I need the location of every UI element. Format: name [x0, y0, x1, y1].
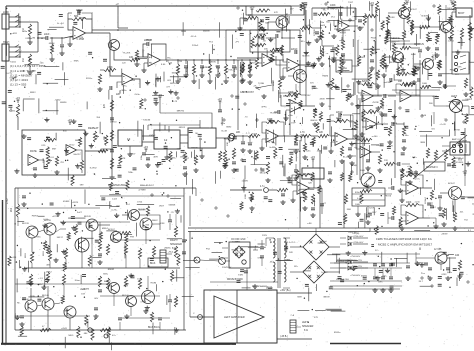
svg-text:uR19: uR19	[250, 63, 256, 65]
svg-text:+837K: +837K	[72, 202, 79, 204]
svg-text:F54: F54	[206, 248, 211, 250]
svg-text:KMVK: KMVK	[149, 135, 156, 137]
svg-text:10K: 10K	[194, 68, 196, 72]
svg-text:10K: 10K	[405, 32, 407, 36]
svg-text:R8KV: R8KV	[30, 92, 36, 94]
svg-text:51R: 51R	[215, 66, 219, 68]
svg-text:270KB: 270KB	[314, 29, 316, 36]
svg-text:+45V (B+): +45V (B+)	[280, 290, 291, 292]
svg-text:820K: 820K	[362, 81, 368, 83]
svg-text:69291: 69291	[361, 276, 368, 278]
svg-text:0KK: 0KK	[458, 67, 463, 69]
svg-text:RF+: RF+	[301, 41, 306, 43]
svg-text:4+73+: 4+73+	[111, 209, 118, 211]
svg-text:+4750+60V: +4750+60V	[352, 242, 364, 244]
svg-text:+15: +15	[450, 0, 455, 2]
svg-text:38n: 38n	[405, 135, 409, 137]
svg-text:1KK7: 1KK7	[159, 205, 165, 207]
svg-text:10K: 10K	[178, 68, 180, 72]
svg-text:477: 477	[166, 87, 170, 89]
svg-text:+45V (B): +45V (B)	[348, 232, 357, 234]
svg-text:497: 497	[290, 9, 294, 11]
svg-text:52.7u: 52.7u	[414, 178, 420, 180]
svg-text:0R22: 0R22	[43, 250, 45, 256]
svg-text:Rn4R: Rn4R	[358, 27, 364, 29]
svg-text:964: 964	[146, 224, 150, 226]
svg-text:MKF4: MKF4	[102, 228, 109, 230]
svg-text:R9692: R9692	[108, 269, 115, 271]
svg-text:+V: +V	[116, 2, 120, 6]
svg-text:6V12: 6V12	[69, 145, 75, 147]
svg-text:(1) 13 = 555: (1) 13 = 555	[10, 83, 27, 87]
svg-text:M8.5: M8.5	[69, 335, 75, 337]
svg-text:BIAS: BIAS	[150, 262, 156, 265]
svg-text:814: 814	[126, 204, 130, 206]
svg-text:22K: 22K	[384, 160, 388, 162]
svg-text:5M468: 5M468	[169, 204, 176, 206]
svg-text:R2.: R2.	[166, 61, 170, 63]
svg-text:81+69: 81+69	[343, 157, 350, 159]
svg-text:GND SPEAKER: GND SPEAKER	[252, 285, 268, 288]
svg-text:RRM: RRM	[235, 242, 240, 244]
svg-text:.76: .76	[171, 212, 175, 214]
svg-text:2K2: 2K2	[11, 207, 13, 212]
svg-text:+3RFn: +3RFn	[120, 90, 127, 92]
svg-text:K38: K38	[160, 223, 165, 225]
svg-text:nVn: nVn	[431, 128, 436, 130]
svg-text:RF7: RF7	[372, 212, 377, 214]
svg-text:220K: 220K	[288, 91, 294, 94]
svg-text:569u: 569u	[103, 273, 109, 275]
svg-text:.nun6: .nun6	[414, 201, 420, 203]
svg-text:+.1.3: +.1.3	[38, 278, 44, 280]
svg-text:R2+: R2+	[167, 57, 172, 59]
svg-text:1V.: 1V.	[272, 143, 275, 145]
svg-text:M25V4: M25V4	[170, 83, 178, 85]
svg-text:1KF: 1KF	[289, 252, 294, 254]
svg-text:Mu22V: Mu22V	[74, 154, 81, 156]
svg-text:03Rn0: 03Rn0	[110, 122, 117, 124]
svg-text:94K6: 94K6	[447, 8, 453, 10]
svg-text:670: 670	[310, 82, 314, 84]
svg-text:+15: +15	[370, 1, 375, 5]
svg-text:21.5+21.5: 21.5+21.5	[286, 242, 296, 244]
svg-text:F99: F99	[130, 236, 135, 238]
svg-text:1FVV: 1FVV	[130, 153, 136, 155]
svg-text:0253: 0253	[442, 274, 448, 276]
svg-text:100K: 100K	[245, 193, 247, 199]
svg-text:7446R: 7446R	[80, 18, 87, 20]
svg-text:1u8: 1u8	[122, 63, 126, 65]
svg-text:0..Mu: 0..Mu	[43, 219, 49, 221]
svg-text:22nF: 22nF	[44, 33, 50, 36]
svg-text:M6.32: M6.32	[260, 172, 267, 174]
svg-text:3146: 3146	[421, 115, 427, 117]
svg-text:7u5n: 7u5n	[306, 151, 312, 153]
svg-text:u27: u27	[322, 203, 326, 205]
svg-text:1M: 1M	[22, 59, 25, 62]
svg-text:4KR: 4KR	[153, 156, 158, 158]
svg-text:0FK: 0FK	[32, 71, 37, 73]
svg-text:1+134: 1+134	[448, 41, 455, 43]
svg-text:RIGHT: RIGHT	[170, 239, 178, 242]
svg-text:RATE: RATE	[30, 149, 37, 153]
svg-text:10K: 10K	[210, 68, 212, 72]
svg-text:uMR: uMR	[124, 284, 129, 286]
svg-text:n468V: n468V	[242, 181, 249, 183]
svg-text:43u: 43u	[23, 31, 27, 33]
svg-text:SPEAKER: SPEAKER	[302, 325, 314, 328]
svg-text:0V4n.: 0V4n.	[135, 94, 141, 96]
svg-text:+750/-60V: +750/-60V	[350, 256, 361, 258]
svg-text:n3VR: n3VR	[61, 328, 67, 330]
svg-text:67M: 67M	[258, 258, 262, 260]
svg-text:u..n.: u..n.	[246, 133, 251, 135]
svg-text:5K3.: 5K3.	[37, 237, 42, 239]
svg-text:½: ½	[150, 61, 152, 65]
svg-text:Rnn6: Rnn6	[80, 289, 86, 291]
svg-text:FR6: FR6	[347, 209, 352, 211]
svg-text:2200uF: 2200uF	[425, 196, 427, 204]
svg-text:54F17: 54F17	[57, 237, 64, 239]
svg-text:+15: +15	[250, 5, 255, 9]
svg-text:LOW: LOW	[3, 11, 9, 14]
svg-text:6M7: 6M7	[52, 149, 57, 151]
svg-text:38K39: 38K39	[323, 296, 330, 298]
svg-text:+FV: +FV	[235, 41, 240, 43]
svg-text:+M042: +M042	[151, 220, 159, 222]
svg-text:+Ru4: +Ru4	[168, 251, 174, 253]
svg-text:1986 TCHASES DRT2048 COM 120V: 1986 TCHASES DRT2048 COM 120V KA	[376, 237, 432, 241]
svg-text:n76n: n76n	[288, 115, 294, 117]
svg-text:K25: K25	[42, 145, 47, 147]
svg-text:+15: +15	[158, 93, 163, 97]
svg-text:0MnV4: 0MnV4	[310, 120, 318, 122]
svg-text:159: 159	[81, 294, 85, 296]
svg-text:1.0.8: 1.0.8	[49, 157, 55, 159]
svg-text:+750/-60V: +750/-60V	[350, 275, 361, 277]
svg-text:5RnM: 5RnM	[146, 40, 152, 42]
svg-text:E 4Ω: E 4Ω	[6, 198, 9, 204]
svg-text:6V57u: 6V57u	[419, 27, 426, 29]
svg-text:22K: 22K	[236, 131, 241, 134]
svg-text:R+2KK: R+2KK	[123, 53, 131, 55]
svg-text:MCB2 C AMPLIFICADOR EM MIT5181: MCB2 C AMPLIFICADOR EM MIT51817	[378, 243, 433, 247]
svg-text:.70: .70	[244, 116, 248, 118]
svg-text:K7M: K7M	[177, 61, 182, 63]
svg-text:92592: 92592	[9, 110, 16, 112]
svg-text:81R5n: 81R5n	[334, 332, 341, 334]
svg-text:R6M95: R6M95	[224, 139, 232, 141]
svg-text:47K: 47K	[274, 12, 278, 14]
svg-text:8.60: 8.60	[161, 64, 166, 66]
svg-text:220/110V: 220/110V	[222, 267, 232, 269]
svg-text:8n6nM: 8n6nM	[421, 15, 428, 17]
svg-text:016RF: 016RF	[63, 201, 70, 203]
svg-text:V04F4: V04F4	[465, 99, 472, 101]
svg-text:57+: 57+	[375, 250, 379, 252]
svg-text:R9499: R9499	[191, 147, 198, 149]
svg-text:1u03: 1u03	[112, 198, 118, 200]
svg-text:781: 781	[60, 162, 64, 164]
svg-text:74411: 74411	[10, 62, 17, 64]
svg-text:LEFT AMPLIFIER: LEFT AMPLIFIER	[224, 315, 245, 319]
svg-text:78RR: 78RR	[181, 31, 187, 33]
svg-text:M9u: M9u	[221, 123, 226, 125]
svg-text:RRF+0: RRF+0	[330, 8, 338, 10]
svg-text:0n80: 0n80	[411, 54, 417, 56]
svg-text:KFV: KFV	[402, 59, 407, 61]
svg-text:220V: 220V	[262, 235, 268, 237]
svg-text:nn2F: nn2F	[137, 278, 143, 280]
svg-text:n19V: n19V	[305, 95, 311, 97]
svg-text:.6714: .6714	[137, 202, 143, 204]
svg-text:nuK3n: nuK3n	[384, 82, 391, 84]
svg-text:K3u1u: K3u1u	[26, 38, 33, 40]
svg-text:F9V26: F9V26	[385, 196, 392, 198]
svg-text:F9387: F9387	[340, 32, 347, 34]
svg-text:350: 350	[96, 117, 100, 119]
svg-text:12 V85: 12 V85	[434, 249, 442, 251]
svg-text:35V0u: 35V0u	[86, 78, 93, 80]
svg-text:7V67: 7V67	[348, 2, 354, 4]
svg-text:3RM: 3RM	[420, 142, 425, 144]
svg-text:599: 599	[80, 185, 84, 187]
svg-text:100K: 100K	[355, 204, 361, 206]
svg-text:V67: V67	[185, 158, 190, 160]
svg-text:51.0V: 51.0V	[349, 122, 355, 124]
svg-text:8 Ω: 8 Ω	[172, 247, 176, 250]
svg-text:52K: 52K	[308, 182, 312, 184]
svg-text:0MK2: 0MK2	[46, 272, 52, 274]
svg-text:+15: +15	[311, 155, 316, 159]
svg-text:K0un.: K0un.	[75, 280, 81, 282]
svg-text:7+8: 7+8	[290, 315, 294, 317]
svg-text:C: C	[193, 313, 195, 315]
svg-text:06V: 06V	[94, 298, 98, 300]
svg-text:220nF: 220nF	[336, 112, 343, 114]
svg-text:799: 799	[292, 103, 296, 105]
svg-text:6RR: 6RR	[124, 286, 129, 288]
svg-text:70M: 70M	[357, 82, 361, 84]
svg-text:0V5: 0V5	[167, 80, 172, 82]
svg-text:560K: 560K	[53, 44, 55, 50]
svg-text:BF245: BF245	[287, 13, 289, 20]
svg-text:7K15M: 7K15M	[270, 113, 277, 115]
svg-text:Fn2: Fn2	[209, 41, 214, 43]
svg-text:22K: 22K	[116, 94, 121, 96]
svg-text:FKRF8: FKRF8	[202, 67, 210, 69]
svg-text:370+: 370+	[122, 85, 128, 87]
svg-text:+15: +15	[405, 0, 410, 2]
svg-text:BC547: BC547	[390, 62, 397, 64]
svg-text:+15: +15	[218, 97, 223, 101]
svg-text:9V0M: 9V0M	[150, 282, 156, 284]
svg-text:22K: 22K	[319, 132, 324, 134]
svg-text:MKR: MKR	[242, 91, 247, 93]
svg-text:6FuM: 6FuM	[49, 43, 55, 45]
svg-text:8+u: 8+u	[421, 273, 425, 275]
svg-text:681FF: 681FF	[179, 127, 186, 129]
svg-text:0u0: 0u0	[116, 206, 120, 208]
svg-text:220K: 220K	[107, 66, 113, 69]
svg-text:.u3.: .u3.	[454, 215, 458, 217]
svg-text:F.2: F.2	[433, 207, 437, 209]
svg-text:8890: 8890	[226, 127, 232, 129]
svg-text:100K: 100K	[406, 202, 412, 204]
svg-text:9n63: 9n63	[320, 25, 326, 27]
svg-text:LM2954-25H: LM2954-25H	[336, 261, 349, 263]
svg-text:+4750+60V: +4750+60V	[352, 236, 364, 238]
svg-text:47: 47	[42, 326, 45, 328]
svg-text:24n+: 24n+	[382, 276, 388, 278]
svg-text:V2V: V2V	[236, 252, 241, 254]
svg-text:M++: M++	[142, 301, 147, 303]
svg-text:0R22: 0R22	[25, 252, 27, 258]
svg-text:BC547: BC547	[448, 183, 455, 185]
svg-text:F38V0: F38V0	[32, 215, 39, 217]
svg-text:006: 006	[264, 48, 268, 50]
svg-text:MASTER 3: MASTER 3	[426, 166, 438, 169]
svg-text:1R2F: 1R2F	[182, 156, 188, 158]
svg-text:M56: M56	[131, 80, 136, 82]
svg-text:2K1: 2K1	[331, 17, 336, 19]
svg-text:286: 286	[429, 103, 433, 105]
svg-text:26.7: 26.7	[419, 281, 424, 283]
svg-text:4K3K: 4K3K	[320, 98, 326, 100]
svg-text:.KVF: .KVF	[291, 122, 297, 124]
svg-text:BD139: BD139	[22, 223, 29, 225]
svg-text:68K: 68K	[74, 15, 79, 18]
svg-text:V1K+R: V1K+R	[228, 69, 235, 71]
svg-text:M43F9: M43F9	[172, 73, 180, 75]
svg-text:10K: 10K	[129, 56, 134, 59]
svg-text:n123: n123	[11, 257, 17, 259]
svg-text:nFF3.: nFF3.	[261, 107, 267, 109]
svg-text:5660M: 5660M	[10, 78, 17, 80]
svg-text:12: 12	[164, 138, 168, 142]
svg-text:4V23F: 4V23F	[372, 102, 379, 104]
svg-text:7M4M: 7M4M	[322, 76, 328, 78]
svg-text:.+n: .+n	[325, 53, 329, 55]
svg-text:830: 830	[63, 130, 67, 132]
svg-text:F94+9: F94+9	[450, 69, 457, 71]
svg-text:4.F+u: 4.F+u	[191, 36, 197, 38]
svg-text:BC547: BC547	[433, 54, 435, 61]
svg-text:8++K4: 8++K4	[57, 23, 64, 25]
svg-text:nV88: nV88	[389, 17, 395, 19]
svg-text:M54n: M54n	[253, 158, 259, 160]
svg-text:1Rn: 1Rn	[378, 282, 383, 284]
svg-text:220nF: 220nF	[291, 49, 298, 51]
svg-text:uM08u: uM08u	[164, 248, 171, 250]
svg-text:+15: +15	[16, 96, 21, 100]
svg-text:9u27: 9u27	[77, 212, 83, 214]
svg-text:BIAS ADJUST: BIAS ADJUST	[140, 184, 155, 187]
svg-text:.68: .68	[263, 41, 267, 43]
svg-text:0R696: 0R696	[60, 102, 67, 104]
svg-text:+15: +15	[144, 145, 149, 149]
svg-text:76M+: 76M+	[128, 172, 134, 174]
svg-text:421: 421	[460, 211, 464, 213]
svg-text:FnR5+: FnR5+	[170, 157, 177, 159]
svg-text:684: 684	[84, 333, 88, 335]
svg-text:8 Ω: 8 Ω	[304, 329, 308, 332]
svg-text:n+M0: n+M0	[372, 136, 378, 138]
svg-text:R2+: R2+	[294, 266, 299, 268]
svg-text:11: 11	[199, 137, 202, 141]
svg-text:K30uM: K30uM	[143, 120, 150, 122]
svg-text:KMK: KMK	[74, 60, 79, 62]
svg-text:8u.38: 8u.38	[221, 131, 227, 133]
svg-text:5MM70: 5MM70	[209, 62, 217, 64]
svg-text:5M9: 5M9	[297, 297, 302, 299]
svg-text:47u: 47u	[112, 335, 116, 337]
svg-text:70n: 70n	[321, 22, 325, 24]
svg-text:MRV92: MRV92	[177, 110, 185, 112]
svg-text:K+R32: K+R32	[90, 168, 98, 170]
svg-text:BC547: BC547	[410, 9, 417, 11]
svg-text:LEFT: LEFT	[302, 321, 308, 324]
svg-text:u1F+: u1F+	[37, 284, 43, 286]
svg-text:820nF: 820nF	[355, 192, 362, 194]
svg-text:+2+VF: +2+VF	[439, 124, 446, 126]
svg-text:4.7u: 4.7u	[260, 186, 265, 188]
svg-text:F79: F79	[314, 317, 319, 319]
svg-text:BOOT: BOOT	[458, 13, 465, 15]
svg-text:+M11: +M11	[12, 33, 18, 35]
svg-text:REPEAT: REPEAT	[88, 126, 99, 130]
svg-text:0.V71: 0.V71	[6, 73, 12, 75]
svg-text:u77MM: u77MM	[138, 189, 145, 191]
svg-text:Rn.: Rn.	[17, 302, 21, 304]
svg-text:15u2: 15u2	[65, 310, 71, 312]
svg-text:n.9K.: n.9K.	[307, 223, 312, 225]
svg-text:F7F+: F7F+	[412, 157, 418, 159]
svg-text:0nFM: 0nFM	[269, 147, 275, 149]
svg-text:5+75V: 5+75V	[321, 272, 328, 274]
svg-text:BIAS 50mV: BIAS 50mV	[148, 326, 160, 329]
svg-text:LEFT: LEFT	[451, 95, 458, 98]
svg-text:9M64n: 9M64n	[418, 262, 425, 264]
svg-text:+698: +698	[432, 96, 438, 98]
svg-text:4682: 4682	[317, 151, 323, 153]
svg-text:K762: K762	[55, 99, 61, 101]
svg-text:8.1: 8.1	[468, 230, 472, 232]
svg-text:RMF7: RMF7	[255, 88, 262, 90]
svg-text:(-45 B-): (-45 B-)	[280, 336, 288, 338]
svg-text:4.7K: 4.7K	[300, 132, 305, 134]
svg-text:10K: 10K	[227, 142, 229, 146]
svg-text:2V8u3: 2V8u3	[192, 45, 199, 47]
svg-text:9.M5: 9.M5	[238, 274, 244, 276]
svg-text:3724: 3724	[78, 37, 84, 39]
svg-text:754: 754	[464, 220, 468, 222]
svg-text:10K: 10K	[398, 81, 403, 83]
svg-text:100K: 100K	[330, 4, 336, 7]
svg-text:n4KK9: n4KK9	[139, 210, 146, 212]
svg-text:440: 440	[455, 254, 460, 257]
svg-text:608.: 608.	[265, 23, 270, 25]
svg-text:n.n: n.n	[354, 147, 358, 149]
svg-text:9n.62: 9n.62	[267, 287, 273, 289]
svg-text:SPEAKER: SPEAKER	[170, 243, 182, 246]
svg-text:KV28: KV28	[252, 134, 258, 136]
svg-text:BD249: BD249	[84, 216, 91, 218]
svg-text:Rn.+: Rn.+	[139, 108, 144, 110]
svg-text:DRIVE BOARD: DRIVE BOARD	[227, 278, 243, 281]
svg-text:842+: 842+	[326, 22, 332, 24]
